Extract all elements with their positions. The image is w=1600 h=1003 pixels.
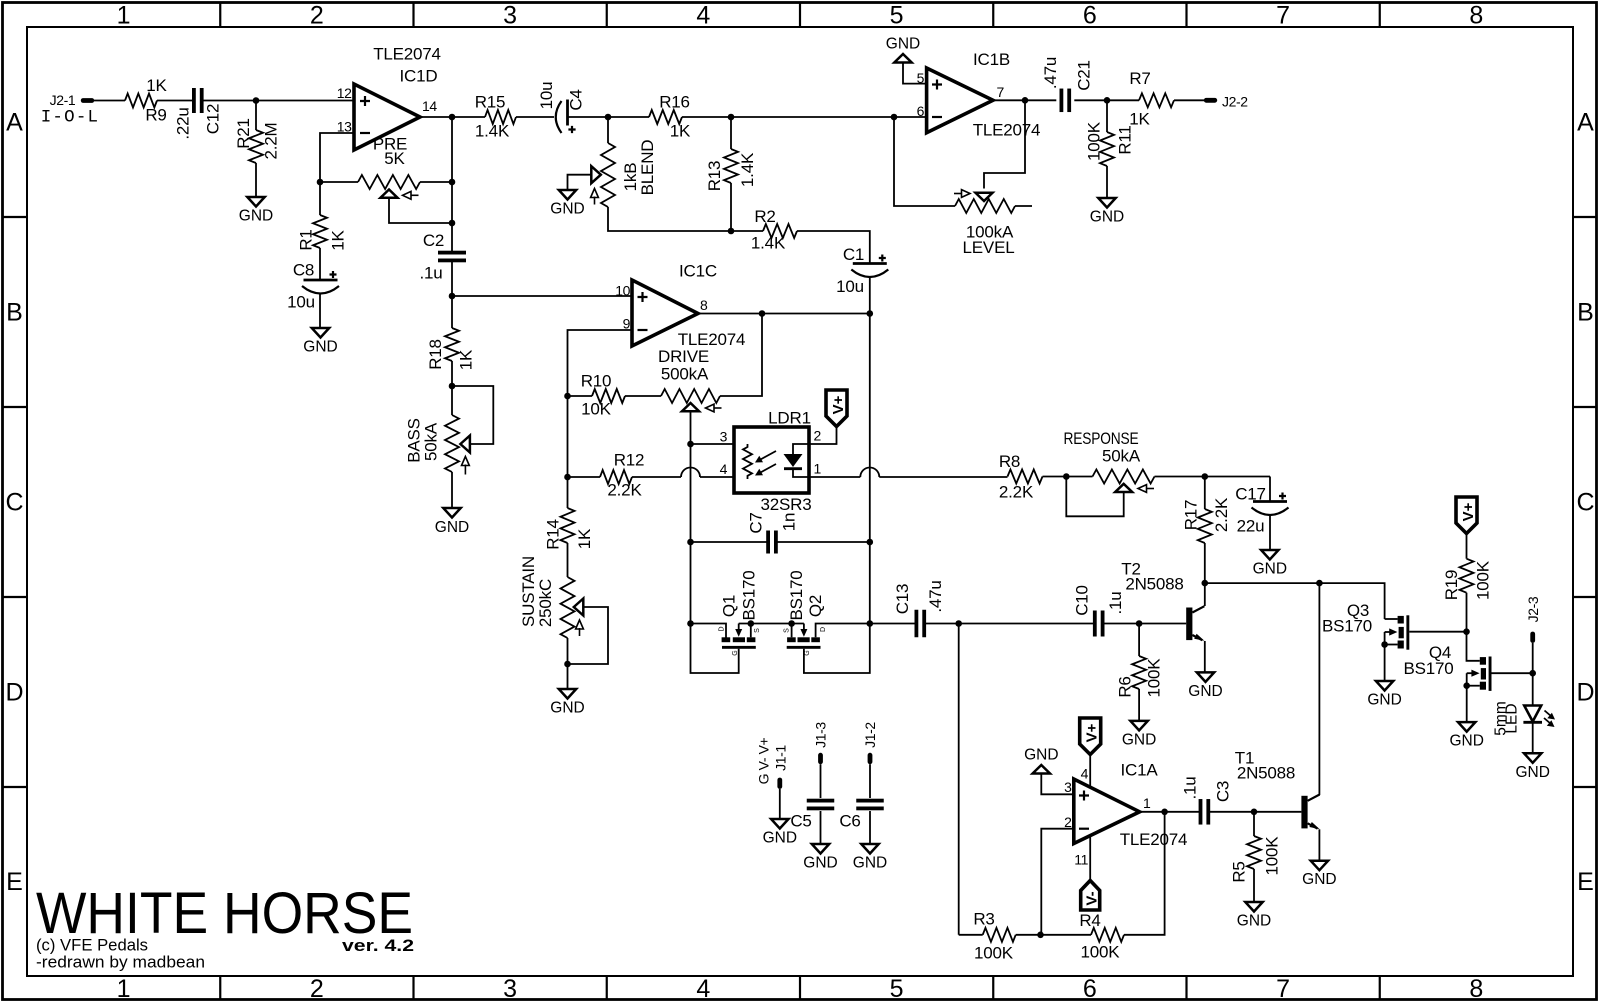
wire LDR pin2 to V+: [809, 427, 837, 444]
node C1 bottom: [867, 310, 874, 317]
wire blend node down: [607, 117, 609, 143]
svg-text:Q1: Q1: [719, 595, 738, 617]
LDR1 light arrows: [760, 451, 777, 460]
resistor R21 2.2M: [249, 130, 263, 163]
svg-text:1K: 1K: [575, 528, 594, 549]
ground below Q3: [1376, 681, 1393, 691]
node T2 collector: [1202, 580, 1209, 587]
svg-text:TLE2074: TLE2074: [973, 121, 1041, 140]
svg-text:J2-3: J2-3: [1525, 596, 1541, 622]
wire C17 to ground: [1269, 516, 1271, 551]
resistor R8 2.2K: [1008, 470, 1043, 484]
node Q4 source: [1463, 682, 1470, 689]
svg-text:1K: 1K: [328, 229, 347, 250]
node R3/R4: [1037, 932, 1044, 939]
resistor R9 1K: [125, 94, 157, 108]
svg-text:-redrawn by madbean: -redrawn by madbean: [36, 954, 205, 972]
ground below C8: [312, 328, 329, 338]
wire RESPONSE wiper loop: [1066, 477, 1123, 517]
svg-text:10u: 10u: [836, 277, 864, 296]
svg-text:2.2K: 2.2K: [607, 481, 642, 500]
wire Q4 source stub: [1467, 685, 1480, 687]
resistor R3 100K: [983, 928, 1016, 942]
svg-text:8: 8: [700, 297, 708, 313]
wire R17 to T2 collector node: [1204, 543, 1206, 583]
wire node down to T1 collector: [1318, 583, 1320, 795]
svg-text:V+: V+: [1460, 502, 1477, 521]
ground below C6: [861, 844, 878, 854]
svg-text:BS170: BS170: [1322, 617, 1372, 636]
svg-text:4: 4: [696, 2, 710, 30]
svg-text:2.2K: 2.2K: [1212, 497, 1231, 532]
terminal J2-1: [81, 98, 94, 103]
wire Q3 gate to R19 node: [1409, 631, 1466, 633]
capacitor C17 22u: [1269, 477, 1271, 502]
wire node to LED: [1532, 673, 1534, 705]
resistor R2 1.4K: [731, 230, 763, 232]
node output feedback: [1022, 97, 1029, 104]
svg-text:1: 1: [117, 2, 131, 30]
svg-text:J1-2: J1-2: [862, 722, 878, 748]
wire R11 to ground: [1106, 166, 1108, 198]
V- supply at IC1A pin11: [1081, 881, 1100, 911]
resistor R7 1K: [1139, 93, 1174, 107]
svg-text:1: 1: [814, 461, 822, 477]
svg-text:IC1B: IC1B: [973, 50, 1010, 69]
capacitor C7 1n: [766, 531, 770, 554]
resistor R16 1K: [608, 116, 649, 118]
ground below T1: [1311, 861, 1328, 871]
node IC1D output: [449, 114, 456, 121]
ground below R5: [1245, 902, 1262, 912]
wire J1-3 to C5: [820, 764, 822, 798]
svg-text:J2-2: J2-2: [1222, 94, 1248, 110]
wire C7 left: [691, 541, 767, 543]
wire R13 to bottom node: [730, 183, 732, 231]
svg-text:C6: C6: [839, 812, 860, 831]
wire output to LEVEL wiper: [984, 100, 1025, 188]
svg-text:6: 6: [917, 103, 925, 119]
node C13 right: [955, 620, 962, 627]
svg-text:3: 3: [503, 2, 517, 30]
svg-text:LDR1: LDR1: [768, 409, 811, 428]
svg-text:R6: R6: [1116, 676, 1135, 697]
svg-text:R15: R15: [475, 93, 506, 112]
op-amp IC1B TLE2074: [927, 68, 993, 133]
svg-text:R21: R21: [234, 118, 253, 149]
node blend top: [605, 114, 612, 121]
svg-text:7: 7: [997, 84, 1005, 100]
wire DRIVE wiper down: [690, 411, 692, 444]
svg-text:C: C: [1576, 489, 1594, 517]
wire R2 to C1: [797, 231, 870, 264]
LED 5mm indicator: [1524, 706, 1541, 722]
node R13 top: [728, 114, 735, 121]
wire pin11 to V-: [1089, 836, 1091, 881]
svg-text:100K: 100K: [1084, 121, 1103, 161]
resistor R10 10K: [568, 395, 593, 397]
resistor R13 1.4K: [730, 117, 732, 149]
svg-text:1.4K: 1.4K: [738, 152, 757, 187]
node R12 left: [564, 474, 571, 481]
svg-text:C12: C12: [203, 104, 222, 135]
svg-text:GND: GND: [1367, 692, 1401, 709]
wire node to Q1 drain: [691, 624, 727, 638]
svg-text:C3: C3: [1213, 781, 1232, 802]
wire RESPONSE right: [1155, 476, 1271, 478]
wire J2-1 to R9: [94, 100, 125, 102]
node drive feedback: [759, 310, 766, 317]
svg-text:GND: GND: [435, 519, 469, 536]
ground below BASS: [443, 508, 460, 518]
svg-text:R13: R13: [705, 161, 724, 192]
wire PRE wiper to output node: [389, 198, 452, 223]
wire R8 to RESPONSE: [1043, 476, 1093, 478]
wire Q3 drain entry: [1385, 618, 1398, 620]
svg-text:C: C: [5, 489, 23, 517]
svg-text:J1-3: J1-3: [813, 722, 829, 748]
svg-text:D: D: [1576, 679, 1594, 707]
wire C1 to output node: [869, 278, 871, 314]
resistor R1 1K: [319, 182, 321, 215]
op-amp IC1C TLE2074: [632, 280, 698, 346]
V+ supply at LDR1: [826, 390, 847, 427]
svg-text:R1: R1: [296, 229, 315, 250]
svg-text:GND: GND: [886, 36, 920, 53]
svg-text:(c) VFE Pedals: (c) VFE Pedals: [36, 937, 148, 955]
svg-text:R8: R8: [999, 452, 1020, 471]
capacitor C8 10u: [304, 279, 338, 282]
svg-text:1K: 1K: [456, 349, 475, 370]
op-amp IC1A TLE2074: [1074, 779, 1140, 844]
svg-text:R5: R5: [1230, 861, 1249, 882]
svg-text:GND: GND: [239, 208, 273, 225]
wire PRE right terminal: [420, 181, 452, 183]
ground below LED: [1524, 753, 1541, 763]
svg-text:E: E: [6, 868, 23, 896]
wire LED to ground: [1532, 724, 1534, 754]
ground at BLEND wiper: [559, 190, 576, 200]
wire IC1B output: [993, 99, 1056, 101]
wire Q2 drain to node: [816, 624, 870, 638]
svg-text:2: 2: [310, 975, 324, 1003]
wire R21 to ground: [255, 163, 257, 197]
transistor Q1 BS170: [722, 637, 731, 642]
svg-text:32SR3: 32SR3: [761, 495, 812, 514]
svg-text:BS170: BS170: [739, 570, 758, 620]
resistor R11 100K: [1100, 132, 1114, 166]
svg-text:C1: C1: [843, 245, 864, 264]
resistor R4 100K: [1091, 928, 1124, 942]
wire C6 to ground: [869, 811, 871, 844]
wire node to R21: [255, 101, 257, 131]
svg-text:GND: GND: [1515, 764, 1549, 781]
node Q3 branch: [1316, 580, 1323, 587]
potentiometer BLEND 1kB: [601, 143, 615, 207]
resistor R5 100K: [1247, 836, 1261, 869]
wire J1-2 to C6: [869, 764, 871, 798]
svg-text:50kA: 50kA: [421, 422, 440, 461]
wire node to R18: [451, 296, 453, 328]
svg-text:R18: R18: [426, 339, 445, 370]
node R11 top: [1104, 97, 1111, 104]
svg-text:Q2: Q2: [806, 595, 825, 617]
svg-text:100K: 100K: [974, 944, 1014, 963]
svg-text:4: 4: [1081, 766, 1089, 782]
svg-text:TLE2074: TLE2074: [373, 45, 441, 64]
svg-text:R10: R10: [581, 372, 612, 391]
svg-text:.1u: .1u: [419, 264, 442, 283]
wire T2 collector: [1204, 583, 1206, 606]
wire Q3 source to ground: [1384, 645, 1386, 682]
svg-text:3: 3: [503, 975, 517, 1003]
svg-text:E: E: [1577, 868, 1594, 896]
svg-text:.47u: .47u: [1041, 57, 1060, 89]
wire C10 to T2 base: [1104, 623, 1186, 625]
potentiometer RESPONSE 50kA: [1093, 470, 1155, 484]
wire IC1C output: [698, 313, 870, 315]
node R10 left: [564, 393, 571, 400]
svg-text:C7: C7: [746, 512, 765, 533]
wire R3 left: [959, 934, 983, 936]
svg-text:250kC: 250kC: [536, 579, 555, 627]
wire LDR pin1 to R8 with hop: [809, 476, 860, 478]
svg-text:RESPONSE: RESPONSE: [1064, 429, 1139, 448]
wire pin9 node down to R12: [567, 396, 569, 508]
ground below T2: [1197, 672, 1214, 682]
svg-text:.1u: .1u: [1180, 776, 1199, 799]
node pin6 feedback: [891, 114, 898, 121]
wire T2 emitter to ground: [1204, 641, 1206, 672]
wire J2-3 to node: [1532, 643, 1534, 673]
wire node to R6: [1138, 624, 1140, 657]
capacitor C4 10u polar: [556, 101, 562, 133]
node blend bottom: [728, 228, 735, 235]
svg-text:ver. 4.2: ver. 4.2: [342, 936, 414, 955]
svg-text:5: 5: [890, 2, 904, 30]
node Q3 gate / R19: [1463, 628, 1470, 635]
svg-text:R14: R14: [543, 519, 562, 550]
wire R6 to ground: [1138, 689, 1140, 721]
svg-text:100K: 100K: [1262, 836, 1281, 876]
svg-text:B: B: [1577, 299, 1594, 327]
svg-text:5K: 5K: [384, 149, 405, 168]
resistor R6 100K: [1132, 656, 1146, 689]
wire BASS to ground: [451, 472, 453, 508]
wire R18 to BASS node: [451, 361, 453, 386]
svg-text:D: D: [718, 626, 725, 631]
wire C2 to pin10 node: [451, 262, 453, 296]
svg-text:R12: R12: [614, 451, 645, 470]
wire node to R5: [1253, 812, 1255, 836]
node Q1 drain/gate: [687, 620, 694, 627]
wire R4 to T1 node: [1124, 812, 1165, 935]
wire pin6 node down to LEVEL: [894, 117, 955, 206]
svg-text:I-O-L: I-O-L: [41, 108, 100, 128]
potentiometer SUSTAIN 250kC: [561, 577, 575, 638]
svg-text:C13: C13: [893, 584, 912, 615]
wire R1 to C8: [319, 248, 321, 280]
wire C3 to R5 node: [1210, 811, 1302, 813]
svg-text:1K: 1K: [1129, 110, 1150, 129]
svg-text:BS170: BS170: [787, 570, 806, 620]
node C7 right: [867, 539, 874, 546]
ground below SUSTAIN: [559, 689, 576, 699]
wire C13 to node: [925, 623, 959, 625]
svg-text:GND: GND: [1253, 561, 1287, 578]
svg-text:.1u: .1u: [1106, 591, 1125, 614]
svg-text:GND: GND: [550, 700, 584, 717]
svg-text:D: D: [5, 679, 23, 707]
svg-text:GND: GND: [1188, 683, 1222, 700]
resistor R18 1K: [445, 328, 459, 361]
node R5 top: [1251, 809, 1258, 816]
svg-text:4: 4: [720, 461, 728, 477]
resistor R14 1K: [561, 508, 575, 543]
potentiometer BASS 50kA: [445, 415, 459, 472]
svg-text:12: 12: [337, 85, 352, 101]
svg-text:10u: 10u: [287, 293, 315, 312]
LED emission arrows: [1545, 711, 1552, 717]
wire output node down to C2: [451, 117, 453, 251]
svg-text:100K: 100K: [1081, 943, 1121, 962]
svg-text:LEVEL: LEVEL: [963, 238, 1015, 257]
svg-text:GND: GND: [1449, 733, 1483, 750]
svg-text:A: A: [1577, 109, 1594, 137]
wire C21 to R11 node: [1074, 99, 1139, 101]
ground below R21: [247, 197, 264, 207]
wire node to C10: [959, 623, 1094, 625]
op-amp IC1D TLE2074: [354, 84, 420, 150]
svg-text:J2-1: J2-1: [50, 92, 76, 108]
svg-text:C8: C8: [293, 261, 314, 280]
svg-text:GND: GND: [1122, 731, 1156, 748]
capacitor C10 .1u: [1093, 611, 1097, 637]
svg-text:G: G: [732, 650, 739, 655]
wire node to PRE pot: [320, 181, 358, 183]
capacitor C21 .47u: [1060, 89, 1064, 113]
Q3 body arrow: [1385, 631, 1390, 633]
node RESPONSE left: [1063, 473, 1070, 480]
capacitor C6: [856, 799, 884, 803]
wire IC1C pin9: [568, 330, 633, 396]
svg-text:10u: 10u: [537, 82, 556, 110]
node at R21 tap: [253, 97, 260, 104]
svg-text:R19: R19: [1442, 570, 1461, 601]
svg-text:2.2K: 2.2K: [999, 483, 1034, 502]
ground below C17: [1261, 550, 1278, 560]
svg-text:C21: C21: [1074, 60, 1093, 91]
wire ground to pin3: [1041, 774, 1074, 795]
svg-text:50kA: 50kA: [1102, 447, 1141, 466]
capacitor C1 10u: [853, 262, 887, 265]
svg-text:C5: C5: [790, 812, 811, 831]
svg-text:G V- V+: G V- V+: [755, 737, 771, 784]
wire R12 to LDR pin4 with hop: [632, 476, 681, 478]
svg-text:GND: GND: [550, 201, 584, 218]
wire R14 to SUSTAIN: [567, 543, 569, 577]
svg-text:.47u: .47u: [926, 580, 945, 612]
grid row ticks left: [3, 216, 27, 218]
svg-text:V+: V+: [830, 395, 847, 414]
ground below R11: [1098, 198, 1115, 208]
svg-text:C10: C10: [1072, 585, 1091, 616]
svg-text:IC1C: IC1C: [679, 262, 717, 281]
svg-text:BS170: BS170: [1403, 659, 1453, 678]
potentiometer DRIVE 500kA: [661, 389, 720, 403]
svg-text:S: S: [754, 628, 761, 633]
node wiper return: [449, 220, 456, 227]
svg-text:BLEND: BLEND: [638, 140, 657, 196]
potentiometer PRE 5K: [358, 175, 420, 189]
wire BLEND wiper to ground: [568, 175, 592, 190]
wire Q2 node to C13: [870, 623, 916, 625]
svg-text:10: 10: [615, 283, 630, 299]
svg-text:R4: R4: [1079, 911, 1100, 930]
svg-text:.22u: .22u: [173, 107, 192, 139]
svg-text:1: 1: [117, 975, 131, 1003]
capacitor C2 .1u: [438, 251, 466, 255]
wire R9 to C12: [157, 100, 192, 102]
svg-text:2N5088: 2N5088: [1125, 575, 1183, 594]
svg-text:C4: C4: [566, 89, 585, 110]
wire BLEND bottom: [608, 207, 731, 231]
wire IC1D output: [420, 116, 485, 118]
wire V+ to R19: [1466, 534, 1468, 559]
V+ supply at R19: [1456, 497, 1477, 534]
wire C1 node down to Q2: [869, 314, 871, 624]
svg-text:11: 11: [1074, 852, 1088, 868]
LDR1 internal LED: [793, 444, 809, 454]
svg-text:5: 5: [917, 70, 925, 86]
wire pin2 to feedback node: [1041, 829, 1074, 935]
node IC1C pin10: [449, 293, 456, 300]
wire node to BASS pot: [451, 386, 453, 415]
wire R7 to J2-2: [1174, 99, 1204, 101]
capacitor C5: [807, 799, 835, 803]
svg-text:1.4K: 1.4K: [751, 234, 786, 253]
capacitor C3 .1u: [1199, 799, 1203, 825]
svg-text:14: 14: [422, 98, 437, 114]
svg-text:5: 5: [890, 975, 904, 1003]
svg-text:GND: GND: [303, 339, 337, 356]
wire C12 to IC1D pin 12: [203, 100, 354, 102]
wire node to R17: [1204, 477, 1206, 510]
wire V+ to pin4: [1089, 755, 1091, 788]
svg-text:6: 6: [1083, 975, 1097, 1003]
wire SUSTAIN wiper loop: [568, 607, 609, 664]
svg-text:1n: 1n: [779, 513, 798, 532]
wire LDR node down to C7: [690, 444, 692, 542]
grid column ticks bottom: [219, 976, 221, 1000]
wire DRIVE right to output: [720, 314, 762, 397]
node Q3 source: [1381, 641, 1388, 648]
svg-text:GND: GND: [853, 855, 887, 872]
potentiometer LEVEL 100kA: [955, 199, 1015, 213]
svg-text:GND: GND: [803, 855, 837, 872]
wire C4 to R16 node: [568, 116, 609, 118]
capacitor C12 .22u: [192, 88, 196, 113]
wire R19 to gate node: [1466, 593, 1468, 632]
wire node to LDR pin3: [691, 443, 735, 445]
svg-text:C2: C2: [423, 231, 444, 250]
wire Q1 source to Q2 source: [739, 623, 804, 625]
capacitor C13 .47u: [915, 610, 919, 638]
terminal J2-2: [1204, 98, 1217, 103]
wire node to R11: [1106, 100, 1108, 132]
wire T1 emitter to ground: [1318, 829, 1320, 860]
svg-text:GND: GND: [1237, 913, 1271, 930]
